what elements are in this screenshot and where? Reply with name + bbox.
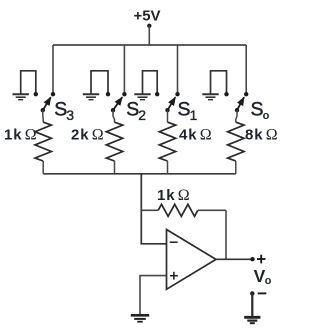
wire: S1 branch drop — [177, 45, 179, 94]
wire: +5V feed — [148, 26, 150, 45]
resistor 2k&#937; — [71, 122, 123, 161]
resistor 8k&#937; — [228, 122, 279, 161]
svg-text:4kΩ: 4kΩ — [179, 127, 212, 144]
resistor Rf 1k&#937; (feedback) — [141, 187, 226, 217]
wire: S0 ground bracket — [211, 71, 227, 94]
svg-text:2kΩ: 2kΩ — [71, 127, 104, 144]
node: S0 bus contact — [244, 92, 248, 96]
wire: S3 pole to resistor — [42, 110, 44, 122]
wire: summing bus (bottom) — [43, 173, 236, 175]
svg-text:o: o — [265, 275, 272, 287]
node: S0 ground contact — [224, 92, 228, 96]
label Vo — [254, 266, 272, 287]
ground (S0 off position) — [202, 94, 218, 99]
ground (S2 off position) — [83, 94, 99, 99]
node: output terminal (+) — [250, 255, 265, 264]
switch S3 — [41, 97, 75, 123]
switch S1 — [165, 97, 197, 123]
wire: S2 branch drop — [123, 45, 125, 94]
wire: 8k resistor bottom lead — [235, 161, 237, 174]
svg-text:+5V: +5V — [133, 8, 160, 25]
node: negative output terminal (-) — [250, 291, 266, 295]
wire: 4k resistor bottom lead — [167, 161, 169, 174]
ground (S3 off position) — [13, 94, 29, 99]
node: S3 ground contact — [34, 92, 38, 96]
svg-text:1kΩ: 1kΩ — [4, 127, 37, 144]
svg-text:2: 2 — [138, 107, 146, 123]
wire: S2 ground bracket — [91, 71, 108, 94]
svg-text:1: 1 — [190, 107, 198, 123]
svg-text:o: o — [263, 110, 270, 122]
wire: 2k resistor bottom lead — [114, 161, 116, 174]
wire: S1 ground bracket — [143, 71, 158, 94]
wire: summing node drop to inverting input — [141, 174, 166, 244]
wire: S3 ground bracket — [21, 71, 36, 94]
ground (output reference) — [244, 317, 260, 323]
svg-text:V: V — [254, 266, 266, 286]
node: +5V tap dot — [147, 24, 151, 28]
wire: top bus — [53, 44, 246, 46]
wire: op-amp output — [216, 258, 253, 260]
wire: feedback right leg — [225, 210, 227, 259]
svg-text:8kΩ: 8kΩ — [245, 127, 278, 144]
switch S2 — [111, 97, 147, 123]
resistor 1k&#937; — [4, 122, 51, 161]
wire: S3 branch drop — [52, 45, 54, 94]
svg-text:1kΩ: 1kΩ — [157, 187, 190, 204]
node: S1 bus contact — [175, 92, 179, 96]
node: S2 ground contact — [106, 92, 110, 96]
wire: S0 pole to resistor — [236, 110, 237, 122]
svg-text:3: 3 — [66, 107, 74, 123]
wire: S1 pole to resistor — [167, 110, 169, 122]
switch S0 — [235, 97, 270, 122]
node: S2 bus contact — [122, 92, 126, 96]
wire: non-inverting input to ground — [140, 276, 167, 315]
wire: 1k resistor bottom lead — [42, 161, 44, 174]
op-amp U1 — [167, 230, 217, 290]
wire: S2 pole to resistor — [113, 110, 115, 122]
wire: S0 branch drop — [245, 45, 247, 94]
node: S3 bus contact — [51, 92, 55, 96]
wire: negative terminal to ground — [251, 293, 253, 316]
ground (S1 off position) — [134, 94, 150, 99]
resistor 4k&#937; — [159, 122, 212, 161]
ground (op-amp non-inverting) — [131, 315, 149, 321]
svg-text:S: S — [251, 99, 264, 121]
node: S1 ground contact — [155, 92, 159, 96]
